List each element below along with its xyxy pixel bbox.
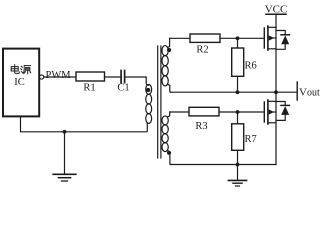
junction dot R7/bottom rail	[236, 163, 240, 167]
ground G1	[53, 132, 76, 181]
junction dot R6/rail	[236, 90, 240, 94]
svg-text:R2: R2	[196, 44, 208, 55]
resistor R6	[232, 48, 244, 76]
polarity dot secondary top	[167, 48, 171, 52]
wire R7 top lead	[237, 112, 239, 124]
resistor R1	[76, 72, 105, 81]
wire secondary bottom to R3	[170, 111, 189, 113]
wire R7 bottom lead	[237, 150, 239, 164]
wire PWM output to R1	[44, 76, 76, 78]
capacitor C1	[121, 71, 125, 83]
wire R6 top lead	[237, 38, 239, 48]
wire secondary top to R2	[170, 37, 190, 39]
Vout terminal bar	[296, 82, 298, 100]
junction dot node R3/R7	[236, 110, 240, 114]
svg-text:IC: IC	[14, 77, 25, 88]
polarity dot secondary bottom	[167, 151, 171, 155]
transformer secondary winding top L2	[162, 38, 171, 92]
svg-text:Vout: Vout	[299, 87, 320, 99]
wire C1 to transformer primary top	[126, 77, 149, 85]
polarity dot primary	[146, 88, 150, 92]
wire R6 bottom lead	[237, 76, 239, 92]
wire Q2 drain/source rail	[275, 92, 277, 164]
wire Q1 source rail	[275, 27, 277, 92]
svg-text:C1: C1	[117, 82, 129, 93]
svg-text:R1: R1	[83, 82, 95, 93]
transformer core	[158, 46, 161, 158]
body diode D2	[276, 102, 289, 121]
wire primary bottom lead	[21, 117, 148, 132]
transistor Q2 (N-MOSFET)	[264, 100, 276, 124]
VCC rail bar	[266, 13, 286, 15]
junction dot Q1 source / Q2 drain node	[274, 90, 278, 94]
svg-text:R6: R6	[245, 61, 257, 72]
wire R1 to C1	[105, 76, 121, 78]
body diode D1	[276, 31, 289, 50]
transformer primary winding L1	[146, 85, 152, 124]
resistor R7	[232, 124, 244, 151]
wire R2 to gate Q1	[220, 37, 264, 39]
terminal circle on IC output pin	[40, 75, 44, 79]
junction dot ground node	[63, 130, 67, 134]
transformer secondary winding bottom L3	[162, 112, 171, 165]
wire secondary top bottom lead rail to Vout	[171, 91, 298, 93]
svg-text:R3: R3	[195, 121, 207, 132]
label 电源 (power)	[11, 65, 31, 74]
wire VCC to Q1 drain	[275, 14, 277, 27]
svg-text:PWM: PWM	[46, 70, 72, 81]
power IC box U1	[3, 49, 39, 117]
wire R3 to gate Q2	[219, 111, 264, 113]
resistor R3	[189, 107, 219, 116]
resistor R2	[190, 34, 220, 42]
transistor Q1 (N-MOSFET)	[264, 26, 276, 50]
ground G2	[228, 165, 246, 187]
wire bottom rail	[171, 164, 276, 166]
svg-text:R7: R7	[245, 134, 257, 145]
junction dot node R2/R6	[236, 36, 240, 40]
